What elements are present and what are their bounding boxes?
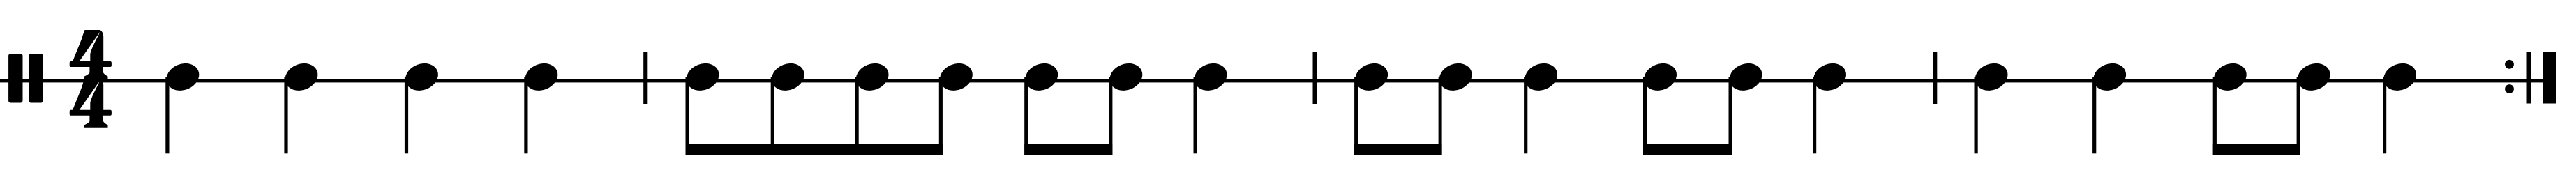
- measure 2: eighth note 2 notehead: [767, 59, 808, 95]
- measure 4: quarter note 3 notehead: [2379, 59, 2420, 95]
- measure 3: quarter note 2 stem: [1813, 77, 1816, 153]
- measure 2: eighth note 1 stem: [686, 77, 689, 155]
- staff line: [0, 79, 2556, 82]
- end repeat thick barline: [2543, 52, 2556, 104]
- end repeat lower dot: [2505, 84, 2514, 93]
- measure 2: eighth note 2 stem: [771, 77, 774, 155]
- barline 2: [1313, 52, 1317, 104]
- measure 3: quarter note 1 notehead: [1521, 59, 1562, 95]
- start double thick barline, bar 2: [29, 54, 43, 103]
- measure 4: eighth note 2 stem: [2297, 77, 2300, 155]
- measure 3: eighth note 4 stem: [1729, 77, 1732, 155]
- measure 4: quarter note 2 stem: [2092, 77, 2096, 153]
- measure 4: eighth note 1 notehead: [2210, 59, 2250, 95]
- measure 3: eighth note 4 notehead: [1725, 59, 1766, 95]
- measure 1: quarter note 2 notehead: [281, 59, 322, 95]
- measure 4: eighth note 1 stem: [2213, 77, 2217, 155]
- beam measure 3 notes 1-2: [1354, 144, 1442, 155]
- measure 1: quarter note 4 stem: [524, 77, 527, 153]
- measure 1: quarter note 3 notehead: [401, 59, 442, 95]
- end repeat thin barline: [2527, 52, 2531, 104]
- measure 3: quarter note 2 notehead: [1809, 59, 1850, 95]
- measure 2: quarter note stem: [1194, 77, 1197, 153]
- measure 4: quarter note 1 stem: [1975, 77, 1978, 153]
- measure 2: eighth note 4 notehead: [936, 59, 976, 95]
- beam measure 3 notes 3-4: [1643, 144, 1732, 155]
- measure 1: quarter note 1 stem: [165, 77, 169, 153]
- beam measure 2 notes 5-6: [1024, 144, 1112, 155]
- time signature numerator 4: [70, 30, 112, 79]
- measure 3: eighth note 3 notehead: [1640, 59, 1680, 95]
- measure 4: eighth note 2 notehead: [2293, 59, 2334, 95]
- measure 4: quarter note 2 notehead: [2090, 59, 2130, 95]
- measure 2: eighth note 6 stem: [1109, 77, 1112, 155]
- time signature denominator 4: [70, 79, 112, 128]
- measure 2: eighth note 6 notehead: [1106, 59, 1146, 95]
- barline 1: [643, 52, 647, 104]
- end repeat upper dot: [2505, 60, 2514, 69]
- measure 2: eighth note 4 stem: [939, 77, 943, 155]
- measure 3: eighth note 1 stem: [1354, 77, 1358, 155]
- measure 2: eighth note 3 notehead: [852, 59, 892, 95]
- measure 3: eighth note 2 notehead: [1435, 59, 1476, 95]
- measure 3: eighth note 1 notehead: [1351, 59, 1392, 95]
- measure 2: eighth note 1 notehead: [682, 59, 723, 95]
- measure 1: quarter note 4 notehead: [521, 59, 562, 95]
- start double thick barline, bar 1: [8, 54, 22, 103]
- measure 2: eighth note 5 stem: [1024, 77, 1028, 155]
- measure 3: eighth note 3 stem: [1643, 77, 1647, 155]
- measure 3: eighth note 2 stem: [1439, 77, 1442, 155]
- measure 4: quarter note 3 stem: [2383, 77, 2386, 153]
- measure 1: quarter note 1 notehead: [163, 59, 203, 95]
- measure 2: eighth note 5 notehead: [1021, 59, 1062, 95]
- barline 3: [1933, 52, 1937, 104]
- beam measure 4 notes 1-2: [2213, 144, 2300, 155]
- measure 3: quarter note 1 stem: [1524, 77, 1527, 153]
- beam measure 2 notes 1-4: [686, 144, 943, 155]
- measure 4: quarter note 1 notehead: [1971, 59, 2012, 95]
- measure 1: quarter note 3 stem: [405, 77, 408, 153]
- measure 2: eighth note 3 stem: [855, 77, 859, 155]
- measure 2: quarter note notehead: [1190, 59, 1231, 95]
- measure 1: quarter note 2 stem: [284, 77, 287, 153]
